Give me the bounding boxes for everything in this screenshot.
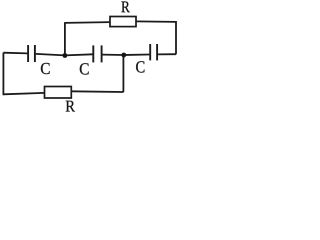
resistor R1 (top) body	[110, 17, 136, 27]
wire C2 to node B	[102, 54, 124, 56]
capacitor C1 right plate	[34, 45, 36, 62]
capacitor C3 left plate	[149, 44, 151, 60]
wire node A to C2	[65, 54, 93, 55]
wire vertical node B down	[122, 55, 124, 92]
wire top-right horizontal	[136, 20, 176, 23]
wire left vertical	[2, 53, 4, 96]
capacitor C2 left plate	[92, 45, 94, 62]
capacitor C1 left plate	[27, 45, 29, 62]
node B junction dot	[121, 53, 126, 58]
label R (bottom resistor)	[66, 101, 75, 112]
wire right vertical	[175, 21, 177, 54]
node A junction dot	[63, 53, 68, 58]
label C (capacitor C2)	[80, 63, 89, 74]
label R (top resistor)	[121, 2, 129, 13]
wire bottom left segment	[3, 93, 44, 94]
wire middle left segment	[3, 52, 27, 55]
wire vertical from node A up to top branch	[64, 22, 66, 55]
wire bottom right segment	[71, 90, 123, 93]
wire top-left horizontal	[65, 21, 110, 24]
label C (capacitor C3)	[136, 61, 144, 72]
wire C1 to node A	[36, 54, 65, 56]
wire node B to C3	[124, 54, 149, 57]
capacitor C3 right plate	[156, 44, 158, 60]
capacitor C2 right plate	[101, 45, 103, 62]
label C (capacitor C1)	[41, 63, 50, 74]
resistor R2 (bottom) body	[45, 87, 72, 99]
wire middle right segment	[158, 53, 176, 55]
